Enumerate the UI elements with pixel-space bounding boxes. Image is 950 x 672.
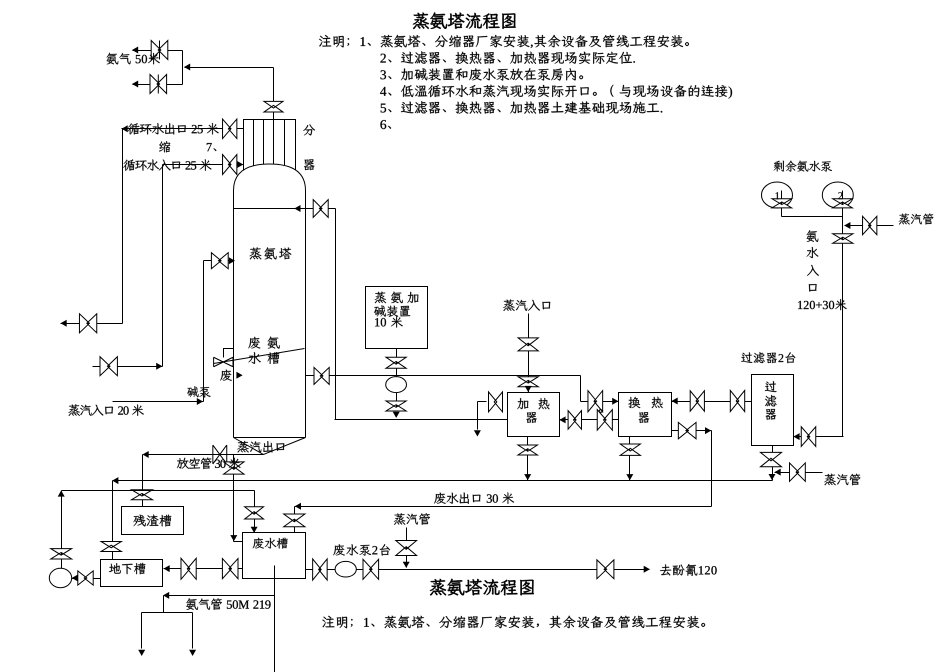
- valve filter outlet B: [730, 390, 744, 411]
- arrow waste feed into tower: [236, 372, 242, 379]
- label 入: [807, 265, 819, 276]
- pipe steam trace bottom: [406, 528, 408, 568]
- pipe condenser vent upper stem: [273, 68, 275, 103]
- pipe waste tank to underground tank: [164, 568, 243, 570]
- heater 加热器: [508, 393, 560, 437]
- valve heater inlet: [489, 392, 503, 412]
- label 剩余氨水泵: [774, 161, 832, 172]
- pipe ammonia gas drop: [163, 596, 165, 613]
- valve exchanger outlet: [678, 422, 696, 438]
- label 器: [304, 159, 315, 170]
- arrow into waste tank 2: [251, 527, 258, 533]
- pipe pump manifold: [782, 216, 843, 218]
- arrow steam trace bottom: [403, 562, 410, 568]
- label 7、: [207, 143, 217, 151]
- label 热: [539, 398, 550, 409]
- label 蒸汽管 bottom: [394, 513, 430, 525]
- label 废水出口 30 米: [434, 493, 514, 504]
- pipe underground pump riser: [61, 491, 63, 569]
- label 过: [765, 381, 777, 392]
- arrow into heat exchanger: [612, 398, 618, 405]
- arrow manifold leg left: [138, 650, 145, 656]
- pipe cooling water outlet: [122, 128, 244, 130]
- label 器 filter: [766, 409, 777, 420]
- note line 5: [381, 101, 663, 113]
- pipe filter to exchanger: [672, 401, 752, 403]
- valve cooling water supply: [100, 357, 117, 376]
- arrow dosing into bottoms line: [393, 412, 400, 418]
- arrow into ammonia header: [184, 64, 190, 71]
- label 氨气管 50M 219: [186, 598, 270, 610]
- pipe waste water outlet header: [295, 506, 712, 508]
- valve cooling water discharge: [79, 314, 96, 333]
- pipe header B: [62, 490, 255, 492]
- valve heater drain: [518, 445, 538, 455]
- pipe cooling water outlet discharge: [61, 323, 123, 325]
- label 缩: [159, 141, 170, 152]
- pump 剩余氨水泵 1: [762, 182, 793, 208]
- label 废水槽: [253, 538, 288, 549]
- arrow ammonia outlet upper: [132, 47, 138, 54]
- arrow cooling water discharge: [61, 320, 67, 327]
- label 蒸汽管 top right: [899, 213, 934, 224]
- pipe vent drop to residue tank: [142, 455, 144, 507]
- label 循环水入口 25 米: [123, 159, 211, 170]
- pipe heater bypass riser: [477, 402, 479, 420]
- pipe cooling water supply: [93, 366, 163, 368]
- label 水 槽: [249, 352, 280, 364]
- valve steam purge right: [790, 463, 806, 481]
- valve underground pump discharge: [51, 549, 72, 559]
- valve dosing lower: [386, 401, 406, 411]
- label 去酚氰120: [660, 564, 717, 576]
- tank 地下槽: [101, 560, 163, 587]
- valve filter drain: [760, 452, 781, 466]
- arrow into exchanger right: [672, 398, 678, 405]
- tower dome fill mask: [234, 164, 306, 191]
- valve filter inlet: [801, 427, 816, 447]
- label 120+30米: [798, 299, 847, 310]
- label 氨: [807, 230, 819, 242]
- arrow cooling water into condenser: [237, 161, 243, 168]
- note line 4: [380, 85, 732, 99]
- arrow into filter: [793, 433, 799, 440]
- valve ammonia upper: [151, 41, 168, 60]
- valve alkali injection: [214, 357, 233, 367]
- pipe header A drop to underground tank: [112, 481, 114, 560]
- label 蒸氨塔: [250, 247, 292, 259]
- tower internal tray line: [234, 208, 306, 210]
- pipe waste pump discharge: [306, 569, 650, 571]
- valve condenser vent: [264, 101, 283, 112]
- arrow manifold leg right: [189, 650, 196, 656]
- pipe heater valve stub: [478, 401, 487, 403]
- heat exchanger 换热器: [619, 393, 672, 437]
- label 碱装置: [374, 305, 410, 317]
- alkali valve bracket: [224, 349, 234, 358]
- label 器 hx: [639, 412, 650, 423]
- pipe condenser vent lower stem: [273, 112, 275, 120]
- valve steam inlet lower: [518, 377, 538, 387]
- pipe ammonia gas header vertical: [182, 51, 184, 85]
- arrow ammonia outlet lower: [132, 81, 138, 88]
- pipe manifold leg right: [192, 613, 194, 649]
- valve steam inlet upper: [518, 338, 538, 351]
- valve waste pump discharge: [363, 559, 379, 579]
- pipe cooling water inlet riser: [162, 165, 164, 367]
- pipe filter drain: [772, 446, 774, 481]
- title 蒸氨塔流程图 bottom: [430, 579, 534, 596]
- pipe from condenser top to ammonia header: [185, 67, 274, 69]
- arrow reflux into tower: [294, 205, 300, 212]
- label 热 hx: [652, 397, 663, 408]
- pipe waste liquor drop: [580, 376, 582, 402]
- label 蒸汽管 right: [824, 474, 860, 486]
- label 换: [628, 397, 640, 408]
- pipe pump1 stem: [781, 191, 783, 217]
- pipe heater drain: [527, 437, 529, 481]
- valve waste tank inlet: [284, 514, 305, 527]
- pipe ammonia water main: [842, 191, 844, 437]
- arrow waste water outlet corner: [295, 503, 301, 510]
- pipe header B drop to waste tank: [254, 491, 256, 533]
- valve pump1 discharge: [772, 199, 792, 208]
- valve pump2 discharge: [833, 199, 853, 208]
- pipe steam trace top right: [845, 225, 894, 227]
- label 废水泵2台: [333, 544, 390, 556]
- pipe ammonia gas outlet lower: [133, 84, 183, 86]
- pipe into waste tank top right: [294, 507, 296, 533]
- valve transfer A: [181, 558, 196, 579]
- arrow drain stub: [474, 430, 481, 436]
- label 地下槽: [109, 563, 145, 574]
- junction dot: [599, 410, 602, 413]
- pipe steam inlet header: [113, 401, 204, 403]
- tower 蒸氨塔 body: [234, 191, 306, 438]
- label pump 1: [776, 192, 780, 199]
- valve dosing upper: [386, 357, 406, 368]
- label 蒸汽入口 mid: [503, 299, 550, 311]
- pipe manifold leg left: [141, 613, 143, 649]
- alkali sloped feed line: [214, 349, 305, 364]
- tower bottom cone: [234, 438, 306, 455]
- arrow heater drain: [524, 474, 531, 480]
- label 残渣槽: [134, 515, 172, 527]
- label 氨气 50米: [107, 53, 160, 65]
- pipe steam inlet middle: [528, 314, 530, 393]
- valve to dephenolization: [597, 560, 614, 579]
- valve interchange right: [597, 410, 612, 431]
- arrow vent corner: [143, 451, 149, 458]
- label 放空管 30 米: [177, 457, 241, 469]
- label 过滤器2台: [741, 352, 795, 363]
- pipe tower overhead right: [306, 208, 336, 210]
- pipe exchanger drain: [629, 437, 631, 481]
- valve cooling water outlet: [223, 119, 237, 139]
- arrow pump into header B: [58, 490, 65, 496]
- pipe steam purge right: [775, 472, 823, 474]
- pipe tower bottoms to heater: [335, 419, 508, 421]
- pipe steam into tower: [204, 260, 234, 262]
- valve filter outlet A: [690, 391, 704, 412]
- pipe waste header A: [113, 480, 773, 482]
- arrow into underground tank: [164, 565, 170, 572]
- valve interchange left: [568, 411, 581, 430]
- pipe vent line 放空管: [143, 454, 264, 456]
- tank 废水槽: [243, 533, 306, 579]
- label 废 clipped: [220, 370, 232, 381]
- pump alkali dosing: [386, 377, 407, 393]
- pipe steam riser: [203, 261, 205, 402]
- pipe exchanger to heater: [560, 419, 619, 421]
- arrow header A corner: [112, 477, 118, 484]
- tank 残渣槽: [122, 507, 184, 535]
- pipe cooling water outlet downcomer: [122, 129, 124, 324]
- valve steam trace top right: [863, 216, 877, 235]
- arrow cooling water supply junction: [156, 363, 162, 370]
- arrow to dephenolization: [644, 566, 650, 573]
- pipe exchanger outlet: [672, 430, 712, 432]
- label 蒸 氨 加: [375, 292, 419, 304]
- valve heat exchanger inlet: [588, 391, 603, 412]
- arrow tower drain: [230, 535, 237, 541]
- label 循环水出口 25 米: [128, 123, 219, 134]
- pipe tower drain: [233, 455, 235, 542]
- label 蒸汽入口 20 米: [68, 404, 143, 416]
- label 蒸汽出口: [237, 441, 284, 453]
- label 碱泵: [187, 386, 210, 397]
- pipe into heat exchanger: [581, 401, 619, 403]
- label 口: [809, 284, 817, 292]
- pipe ammonia gas pipe 氨气管: [164, 595, 275, 597]
- pump 剩余氨水泵 2: [822, 182, 853, 208]
- filter 过滤器: [752, 375, 794, 446]
- label pump 2: [838, 192, 842, 199]
- condenser tube bundle: [254, 120, 285, 171]
- tower dome arc: [234, 164, 306, 191]
- valve transfer B: [222, 559, 238, 579]
- pipe ammonia water to filter: [794, 436, 844, 438]
- valve steam trace bottom: [396, 540, 417, 555]
- note bottom: [322, 616, 705, 629]
- valve tower overhead: [313, 200, 328, 218]
- arrow into underground pump: [72, 575, 78, 582]
- arrow steam inlet junction: [197, 398, 203, 405]
- label 10 米: [375, 316, 403, 327]
- valve underground pump suction: [78, 571, 93, 585]
- valve underground tank inlet: [101, 541, 121, 551]
- valve vent line: [213, 445, 227, 464]
- valve exchanger drain: [620, 444, 640, 455]
- label 加: [517, 398, 528, 409]
- note line 6: [380, 120, 391, 129]
- note line 2: [380, 51, 634, 63]
- pipe tower drain jog: [234, 541, 243, 543]
- pipe cooling water inlet: [163, 164, 244, 166]
- pipe ammonia gas outlet upper: [133, 50, 183, 52]
- arrow ammonia gas corner: [163, 592, 169, 599]
- arrow steam into heater: [525, 386, 532, 392]
- pipe manifold header: [142, 612, 193, 614]
- arrow into waste water drop: [705, 427, 711, 434]
- note line 1: [319, 35, 689, 48]
- pipe waste tank dip tube: [274, 566, 276, 672]
- arrow into heater: [559, 416, 565, 423]
- label 分: [303, 124, 315, 135]
- pipe drain stub below bypass: [477, 420, 479, 430]
- valve residue tank inlet: [132, 490, 153, 500]
- arrow steam trace junction: [844, 222, 850, 229]
- arrow steam into tower: [229, 257, 235, 264]
- pump 废水泵: [335, 561, 356, 577]
- title 蒸氨塔流程图 top: [413, 13, 516, 30]
- label 废 氨: [248, 337, 279, 349]
- note line 3: [381, 68, 583, 80]
- valve ammonia lower: [150, 75, 167, 94]
- valve waste tank inlet 2: [245, 507, 264, 519]
- valve tower drain 蒸汽出口: [224, 462, 244, 474]
- pipe waste water drop: [711, 431, 713, 507]
- condenser 分缩器 shell: [244, 120, 296, 176]
- arrow cooling water outlet corner: [122, 125, 128, 132]
- pipe overhead downcomer: [335, 209, 337, 420]
- valve steam into tower: [211, 253, 228, 269]
- arrow exchanger drain: [626, 474, 633, 480]
- valve ammonia water main: [833, 234, 853, 244]
- pipe dosing drop: [396, 349, 398, 411]
- valve waste liquor: [314, 367, 329, 384]
- valve waste pump suction: [313, 559, 328, 580]
- valve cooling water inlet: [223, 155, 237, 175]
- arrow filter drain: [769, 474, 776, 480]
- arrow steam purge junction: [775, 469, 781, 476]
- label 水: [807, 247, 819, 258]
- tank 蒸氨加碱装置: [366, 287, 428, 349]
- pump underground: [49, 568, 71, 587]
- pipe waste liquor line: [306, 375, 581, 377]
- pipe underground tank to pump: [72, 578, 101, 580]
- label 滤: [765, 395, 776, 406]
- label 器 heater: [526, 412, 537, 423]
